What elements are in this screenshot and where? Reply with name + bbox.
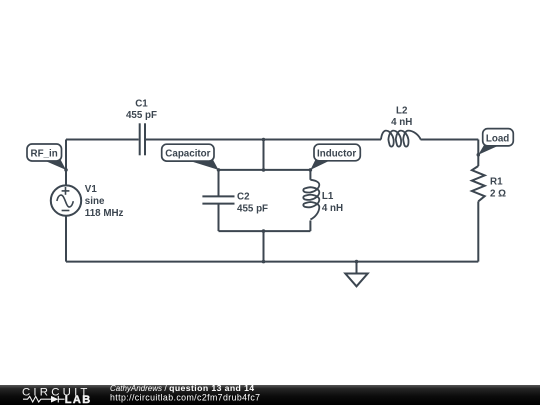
svg-text:sine: sine <box>85 196 105 207</box>
svg-text:RF_in: RF_in <box>31 148 58 159</box>
svg-text:R1: R1 <box>490 177 503 188</box>
svg-text:455 pF: 455 pF <box>237 204 268 215</box>
svg-text:118 MHz: 118 MHz <box>85 208 124 219</box>
svg-text:Inductor: Inductor <box>317 148 356 159</box>
svg-text:CathyAndrews / question 13 and: CathyAndrews / question 13 and 14 <box>110 383 255 393</box>
svg-text:C2: C2 <box>237 191 250 202</box>
svg-text:Capacitor: Capacitor <box>165 148 210 159</box>
svg-text:4 nH: 4 nH <box>322 203 343 214</box>
svg-text:455 pF: 455 pF <box>126 110 157 121</box>
svg-text:L1: L1 <box>322 191 334 202</box>
svg-text:2 Ω: 2 Ω <box>490 188 506 199</box>
svg-text:LAB: LAB <box>65 394 92 405</box>
svg-text:http://circuitlab.com/c2fm7dru: http://circuitlab.com/c2fm7drub4fc7 <box>110 392 260 402</box>
svg-text:4 nH: 4 nH <box>391 117 412 128</box>
svg-text:C1: C1 <box>135 98 148 109</box>
svg-text:Load: Load <box>486 134 509 145</box>
svg-text:L2: L2 <box>396 105 408 116</box>
svg-text:V1: V1 <box>85 184 98 195</box>
